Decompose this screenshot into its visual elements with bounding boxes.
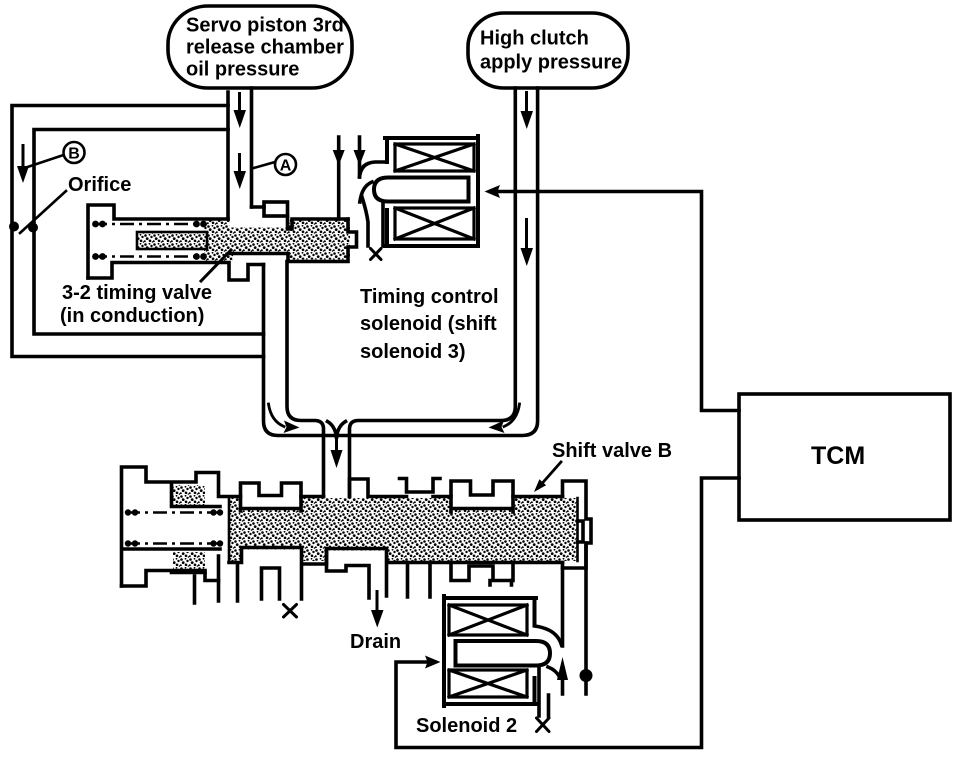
svg-text:release chamber: release chamber [186,37,344,59]
svg-text:(in conduction): (in conduction) [60,305,204,327]
svg-text:Drain: Drain [350,631,401,653]
svg-text:Timing control: Timing control [360,286,499,308]
svg-text:solenoid (shift: solenoid (shift [360,313,497,335]
svg-text:Servo piston 3rd: Servo piston 3rd [186,15,344,37]
svg-text:solenoid 3): solenoid 3) [360,341,466,363]
svg-text:Orifice: Orifice [68,174,131,196]
svg-text:Solenoid 2: Solenoid 2 [416,715,517,737]
svg-text:3-2 timing valve: 3-2 timing valve [62,282,212,304]
svg-text:oil pressure: oil pressure [186,59,299,81]
svg-text:Shift valve B: Shift valve B [552,440,672,462]
svg-text:High clutch: High clutch [480,28,589,50]
svg-text:A: A [280,158,292,175]
svg-text:B: B [68,146,80,163]
svg-text:TCM: TCM [811,442,865,470]
svg-text:apply pressure: apply pressure [480,52,622,74]
